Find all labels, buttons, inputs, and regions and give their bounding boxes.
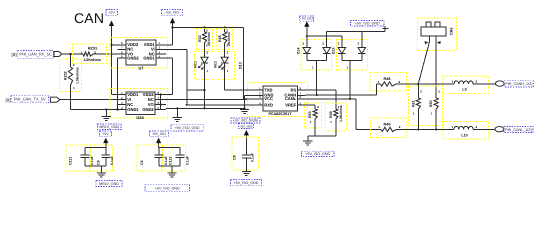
- resistor R61: [409, 86, 443, 126]
- svg-text:1.0Kohms: 1.0Kohms: [83, 58, 101, 62]
- svg-text:R48: R48: [384, 77, 391, 81]
- svg-text:+5V_ISO: +5V_ISO: [239, 124, 253, 128]
- wire GND1 net left: [71, 109, 127, 111]
- resistor R49: [371, 118, 408, 138]
- power arrow +5V_ISO C8: [244, 130, 249, 136]
- jumper CN6: [417, 18, 456, 51]
- svg-text:PHI_CAN_TX_5V: PHI_CAN_TX_5V: [14, 96, 46, 101]
- svg-text:0.1uF: 0.1uF: [110, 156, 114, 165]
- svg-text:0.1uF: 0.1uF: [164, 156, 168, 165]
- ground caps1: [100, 166, 102, 173]
- wire CANL to L10: [397, 128, 452, 130]
- svg-text:U24: U24: [136, 115, 144, 120]
- svg-text:PCA82C251T: PCA82C251T: [269, 112, 293, 116]
- svg-text:L9: L9: [462, 88, 466, 92]
- wire diode top rail1: [307, 35, 342, 37]
- power arrow +5V: [109, 21, 114, 27]
- wire RS net: [306, 89, 336, 91]
- wire TX net: [60, 99, 126, 101]
- svg-text:C111: C111: [69, 157, 73, 165]
- wire led A down: [204, 63, 206, 108]
- ground mid +5V_ISO_GND: [176, 108, 178, 117]
- ground transceiver GND: [245, 94, 247, 96]
- svg-text:VCC: VCC: [264, 96, 273, 101]
- ground flag diodes: [384, 26, 386, 32]
- port bubble CANL: [495, 127, 504, 132]
- power arrow +5V_ISO: [170, 18, 175, 24]
- svg-text:+5V: +5V: [109, 11, 116, 15]
- svg-text:0.1uF: 0.1uF: [251, 153, 255, 162]
- net label MRLV_GND caps1: [96, 181, 122, 187]
- net label PHI_CAN_TX_5V: [11, 95, 49, 103]
- capacitor C111: [66, 145, 90, 171]
- wire U7 GND1 to U24: [156, 57, 173, 59]
- power +5V_ISO label caps2: [150, 131, 169, 136]
- resistor R32: [197, 29, 213, 50]
- wire L10 to out: [473, 128, 495, 130]
- svg-text:RXD: RXD: [264, 102, 273, 107]
- net label PHI_CAN_RX_5C: [18, 50, 54, 58]
- svg-text:GND2: GND2: [142, 107, 154, 112]
- svg-text:+5V_ISO: +5V_ISO: [152, 132, 166, 136]
- svg-text:D13: D13: [239, 62, 243, 69]
- svg-text:1.0Kohms: 1.0Kohms: [76, 67, 80, 84]
- wire RX net: [62, 53, 84, 55]
- wire to gnd R63 R39: [308, 135, 336, 137]
- power +5V_ISO label C8: [239, 124, 254, 129]
- resistor R232: [60, 59, 82, 92]
- wire GND2 net mid: [166, 107, 245, 109]
- diode D15 A: [337, 40, 368, 71]
- wire diode pair1 bottom: [306, 54, 308, 61]
- svg-text:[8]: [8]: [12, 52, 18, 57]
- offpage connector RX flag: [54, 52, 62, 57]
- svg-text:R63: R63: [308, 111, 312, 118]
- svg-text:MC1: MC1: [194, 61, 198, 68]
- net label +5V_ISO_GND diodes: [351, 21, 385, 26]
- wire led MC1 branch: [187, 89, 205, 91]
- svg-text:R39: R39: [329, 111, 333, 118]
- svg-text:+5V_ISO: +5V_ISO: [300, 17, 314, 21]
- wire VREF net: [298, 104, 316, 106]
- resistor R60: [434, 98, 438, 109]
- svg-text:GND1: GND1: [127, 107, 139, 112]
- power +5V_ISO label diodes: [300, 16, 314, 21]
- diode D14 A: [301, 40, 332, 71]
- svg-text:+5V_ISO_GND: +5V_ISO_GND: [305, 152, 330, 156]
- wire CANH to L9: [396, 83, 451, 85]
- power +5V_ISO label: [162, 9, 183, 15]
- resistor R231: [73, 44, 107, 64]
- svg-text:CAN: CAN: [74, 10, 104, 26]
- led D13 A: [204, 43, 206, 57]
- wire L9 to out: [473, 83, 495, 85]
- svg-text:0.1uF: 0.1uF: [186, 156, 190, 165]
- capacitor C6: [137, 145, 162, 171]
- svg-text:VREF: VREF: [285, 102, 296, 107]
- svg-text:+5V_ISO_GND: +5V_ISO_GND: [155, 186, 180, 190]
- led D13 B: [224, 43, 226, 57]
- net label +5V_ISO_GND C8: [231, 179, 262, 185]
- svg-text:R32: R32: [198, 35, 202, 42]
- svg-text:U7: U7: [138, 66, 144, 71]
- inductor L9: [443, 76, 489, 94]
- ground MRLV_GND: [105, 110, 107, 117]
- svg-text:CN6: CN6: [450, 28, 454, 35]
- wire CANL net: [306, 98, 357, 100]
- ground C8: [245, 158, 247, 172]
- svg-text:R232: R232: [64, 71, 68, 80]
- resistor R63: [305, 103, 322, 128]
- power arrow +5V_ISO caps2: [156, 138, 161, 144]
- svg-text:CANL: CANL: [285, 96, 297, 101]
- net label CAN_ISO_GND6: [231, 118, 260, 123]
- net label +5V_ISO_GND right: [302, 151, 335, 156]
- capacitor C9: [91, 145, 113, 171]
- resistor R39: [326, 103, 347, 131]
- capacitor C8: [232, 137, 259, 170]
- wire CN6 pin1: [418, 42, 429, 83]
- svg-text:R60: R60: [429, 100, 433, 107]
- net label PHI_CANL: [504, 126, 533, 132]
- svg-text:MRLV_GND: MRLV_GND: [99, 125, 119, 129]
- wire CN6 pin2: [435, 42, 437, 98]
- svg-text:R49: R49: [384, 123, 391, 127]
- op-amp U7 isolator: [110, 38, 167, 68]
- net label +5V_ISO_GND caps2: [145, 185, 190, 191]
- ic U? CAN transceiver PCA82C251T: [248, 83, 308, 117]
- svg-text:+5V_ISO_GND: +5V_ISO_GND: [175, 126, 200, 130]
- svg-text:C112: C112: [169, 157, 173, 165]
- svg-text:D15: D15: [332, 48, 336, 54]
- wire RXD net: [166, 48, 187, 50]
- svg-text:C9: C9: [97, 160, 101, 165]
- svg-text:GND2: GND2: [127, 56, 139, 61]
- wire caps2 rails: [159, 147, 180, 149]
- svg-text:PHI_CANH_1(2): PHI_CANH_1(2): [505, 82, 532, 86]
- svg-text:L10: L10: [461, 133, 467, 137]
- wire VCC net mid: [166, 99, 247, 101]
- led D13 box: [195, 52, 235, 80]
- capacitor C112: [163, 145, 186, 171]
- svg-text:R61: R61: [411, 100, 415, 107]
- op-amp U24 isolator: [110, 89, 167, 119]
- wire diode pair2 bottom: [341, 54, 343, 61]
- ground caps2: [171, 166, 173, 173]
- net label MRLV_GND: [98, 124, 122, 130]
- svg-text:+5V_ISO: +5V_ISO: [165, 11, 179, 15]
- port bubble CANH: [495, 81, 504, 86]
- ground R63 R39: [307, 136, 309, 141]
- resistor R45: [217, 29, 233, 50]
- svg-text:MC2: MC2: [214, 61, 218, 68]
- svg-text:PHI_CANL_1(2): PHI_CANL_1(2): [505, 128, 532, 132]
- wire caps1 rails: [85, 147, 106, 149]
- svg-text:C8: C8: [233, 155, 237, 160]
- wire +5V_ISO rail: [173, 27, 244, 29]
- svg-text:+5V_ISO_GND: +5V_ISO_GND: [234, 181, 259, 185]
- svg-text:+5V_ISO_GND6: +5V_ISO_GND6: [233, 119, 258, 123]
- power +5V label: [106, 9, 118, 15]
- svg-text:+5V: +5V: [102, 132, 109, 136]
- power +5V label caps1: [100, 131, 112, 136]
- svg-text:R231: R231: [88, 45, 98, 50]
- diode D15 B: [358, 48, 366, 54]
- wire led B down: [224, 63, 226, 90]
- svg-text:[8]: [8]: [6, 98, 12, 103]
- svg-text:MRLV_GND: MRLV_GND: [99, 182, 119, 186]
- wire U7 GND2 down: [117, 58, 119, 109]
- offpage connector TX flag: [50, 97, 60, 102]
- svg-text:+5V_ISO_GND: +5V_ISO_GND: [355, 21, 380, 25]
- power arrow +5V_ISO diodes: [304, 21, 309, 27]
- resistor R48: [370, 73, 407, 92]
- wire U24 stub join: [160, 95, 162, 110]
- wire diode top rail2: [327, 31, 385, 33]
- svg-text:D14: D14: [297, 48, 301, 54]
- diode D14 B: [323, 48, 331, 54]
- svg-text:GND1: GND1: [143, 56, 155, 61]
- wire TXD net: [225, 89, 247, 91]
- svg-text:C6: C6: [140, 160, 144, 165]
- wire +5V rail to U7/U24: [111, 26, 113, 95]
- wire CANH net: [306, 94, 377, 96]
- net label PHI_CANH: [504, 81, 533, 87]
- svg-text:PHI_CAN_RX_5C: PHI_CAN_RX_5C: [19, 52, 52, 57]
- inductor L10: [443, 122, 489, 140]
- power arrow +5V caps1: [103, 138, 108, 144]
- net label +5V_ISO_GND mid: [171, 125, 203, 131]
- svg-text:R45: R45: [218, 35, 222, 42]
